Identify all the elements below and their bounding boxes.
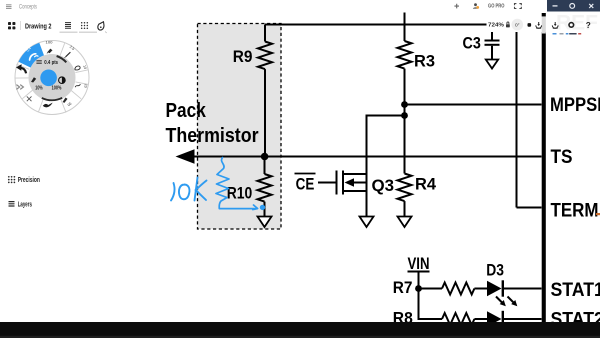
wire TERM horizontal: [517, 207, 542, 209]
node junction MPPSET: [401, 101, 408, 108]
svg-text:Q3: Q3: [372, 176, 395, 195]
toolbar dotgrid underline: [79, 31, 97, 33]
svg-text:R10: R10: [227, 183, 253, 202]
wire D3 to bus: [503, 288, 542, 290]
svg-text:MPPSET: MPPSET: [550, 94, 600, 116]
svg-text:100%: 100%: [52, 85, 62, 91]
svg-text:VIN: VIN: [408, 254, 430, 273]
svg-text:100: 100: [46, 40, 53, 44]
svg-text:Pack: Pack: [166, 100, 207, 122]
window close button: [589, 4, 593, 8]
tool wheel active blue segment: [19, 43, 45, 68]
wire top rail: [265, 24, 517, 26]
tool wheel nib icon: [75, 66, 80, 70]
LED D4 row2: [487, 311, 503, 327]
wire R3 to R4: [404, 69, 406, 174]
svg-text:724%: 724%: [488, 23, 504, 29]
label CE with overbar: [295, 174, 316, 194]
node junction Q3 branch: [401, 112, 408, 119]
toolbar drawing grid icon: [8, 22, 15, 29]
wire VIN down to R8 row: [419, 289, 443, 320]
svg-text:Layers: Layers: [18, 202, 32, 209]
tool wheel opacity arc: [42, 98, 62, 100]
annotation blue endpoint dot: [260, 205, 265, 210]
resistor R7: [442, 283, 474, 295]
svg-text:TERM: TERM: [551, 200, 599, 222]
wire R8 to LED2: [474, 318, 487, 320]
svg-text:R9: R9: [233, 47, 253, 66]
svg-text:Thermistor: Thermistor: [166, 125, 259, 147]
svg-text:R3: R3: [414, 52, 435, 71]
wire LED2 to bus: [503, 318, 542, 320]
IC bus seen through panel gap: [542, 17, 546, 34]
node junction R9/R10/TS: [261, 153, 269, 161]
svg-text:Precision: Precision: [18, 177, 40, 184]
LED D3 emission arrows: [496, 297, 517, 307]
pin label TERM underscore mark: [596, 213, 600, 215]
svg-text:?: ?: [586, 21, 591, 30]
svg-text:STAT1: STAT1: [551, 279, 600, 301]
sidebar Precision item: [8, 176, 40, 184]
svg-text:0°: 0°: [515, 23, 520, 29]
toolbar list underline: [60, 31, 78, 33]
svg-text:GO PRO: GO PRO: [488, 4, 505, 10]
window restore button: [570, 4, 575, 9]
small square icon: [528, 23, 532, 27]
wire CE to gate: [318, 182, 336, 184]
tool wheel filled brush icon: [43, 103, 53, 108]
svg-text:R7: R7: [393, 278, 413, 297]
svg-text:Concepts: Concepts: [19, 5, 37, 11]
wire VIN to R7: [419, 288, 443, 290]
tool wheel wire icon: [75, 84, 80, 87]
svg-text:TS: TS: [551, 146, 573, 168]
toolbar divider: [20, 21, 22, 30]
window minimize button: [553, 5, 558, 7]
sidebar Layers item: [9, 202, 32, 209]
ground below C3: [486, 60, 498, 69]
rotation chip: [512, 19, 524, 31]
label Pack Thermistor: [166, 100, 259, 147]
tool wheel contrast icon: [59, 77, 66, 84]
wire R3 top stub: [404, 13, 406, 42]
settings icon: [569, 23, 574, 28]
svg-text:REF: REF: [556, 12, 598, 35]
toolbar nib icon: [98, 22, 107, 33]
tool wheel size arc: [57, 56, 67, 62]
capacitor C3: [485, 25, 500, 60]
topbar plus icon: [454, 4, 459, 9]
tool wheel outer ring: [15, 41, 89, 115]
tool wheel slice eraser icon: [27, 96, 32, 101]
svg-text:Drawing 2: Drawing 2: [25, 21, 52, 30]
tool wheel pencil icon: [64, 52, 70, 58]
wire node to R10: [264, 157, 266, 175]
floating zoom toolbar panel: [487, 17, 600, 33]
palette dashes: [553, 33, 582, 35]
ground below R4: [398, 217, 412, 228]
taskbar bottom black: [0, 322, 600, 338]
selection box (dashed, gray fill) around thermistor divider: [198, 24, 282, 230]
tool wheel pen icon active: [30, 54, 38, 60]
annotation blue resistor sketch: [216, 158, 258, 210]
tool wheel inner disc: [29, 54, 76, 101]
resistor R8: [442, 313, 474, 325]
wire TS horizontal: [193, 156, 542, 158]
net rail VIN: [408, 254, 430, 289]
tool wheel center blue: [40, 70, 57, 87]
LED D3: [487, 280, 503, 296]
tool wheel marker icon: [47, 49, 53, 54]
import icon right: [552, 22, 558, 28]
wire R10 to ground: [264, 202, 266, 217]
tool wheel airbrush icon: [63, 98, 68, 103]
annotation handwritten 10K: [171, 178, 207, 201]
wire MPPSET horizontal: [405, 104, 542, 106]
toolbar list icon: [65, 23, 71, 29]
wire R9 to node: [264, 69, 266, 156]
resistor R3: [398, 41, 412, 69]
import icon left: [536, 22, 542, 28]
ground below R10: [258, 217, 272, 228]
svg-text:0.4 pts: 0.4 pts: [44, 60, 58, 66]
resistor R10: [258, 174, 272, 202]
svg-text:D3: D3: [486, 261, 504, 280]
tool wheel: [15, 40, 89, 114]
wire R4 to ground: [404, 201, 406, 216]
ground below Q3: [360, 217, 374, 228]
wire R9 top: [264, 25, 266, 42]
topbar account icon: [473, 3, 479, 9]
IC edge thick bus: [542, 13, 546, 322]
wire thin bus vertical: [516, 25, 518, 208]
svg-text:10%: 10%: [35, 85, 43, 91]
arrow left on TS wire: [176, 149, 195, 163]
tool wheel size label: [36, 60, 58, 66]
toolbar hamburger top-left: [6, 5, 12, 9]
tool wheel segment dividers: [15, 43, 89, 112]
transistor Q3 (MOSFET): [337, 171, 367, 195]
svg-text:CE: CE: [296, 175, 315, 194]
window title bar: [547, 0, 600, 12]
topbar fullscreen icon: [515, 4, 522, 9]
resistor R9: [258, 42, 272, 70]
node junction VIN/R7: [415, 285, 422, 292]
tool wheel undo icon: [16, 64, 26, 73]
svg-text:R4: R4: [415, 175, 437, 194]
resistor R4: [398, 174, 412, 202]
svg-text:C3: C3: [463, 34, 481, 53]
wire branch to Q3 drain: [367, 116, 405, 217]
tool wheel redo icon: [16, 85, 23, 90]
toolbar dotgrid icon: [81, 22, 88, 29]
tool wheel brush preview icon: [31, 77, 36, 82]
lock icon: [506, 22, 510, 27]
wire R7 to D3: [474, 288, 487, 290]
